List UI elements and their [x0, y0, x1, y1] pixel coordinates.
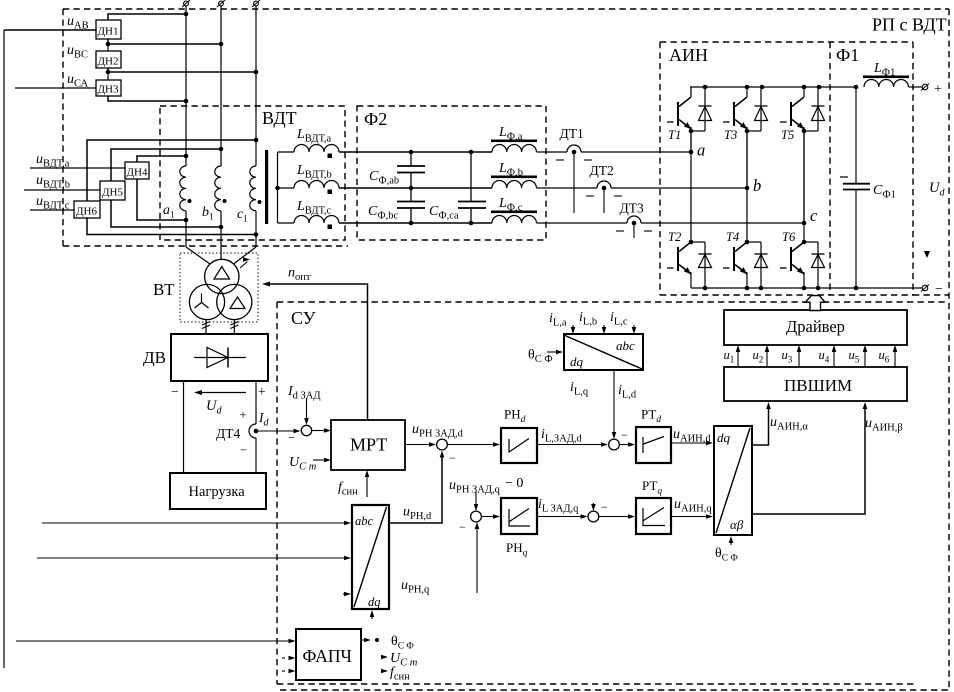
wire ФАПЧ input 2 [282, 657, 285, 659]
wire phase a out [339, 151, 492, 153]
polarity dot b1 [223, 199, 227, 203]
regulator РН_q [501, 498, 537, 534]
svg-text:Драйвер: Драйвер [786, 317, 845, 336]
wire ДН4 input [30, 167, 125, 169]
wire phase leg b [746, 131, 748, 242]
boundary РП с ВДТ bottom-left [63, 245, 348, 247]
arrow U_Cm output [381, 655, 388, 660]
junction top bus x=705 [703, 85, 708, 90]
junction bottom bus x=804 [802, 286, 807, 291]
diode of Т2 [691, 241, 705, 243]
boundary РП bottom-right segment [913, 294, 949, 296]
svg-text:ВДТ: ВДТ [262, 108, 297, 128]
box Ф1 dashed right [912, 42, 914, 295]
wire u1 ПВШИМ to Драйвер [737, 350, 739, 367]
junction top bus x=747 [745, 85, 750, 90]
diode of Т3 [760, 87, 762, 131]
svg-text:+: + [240, 408, 247, 422]
node c [802, 221, 807, 226]
node a [689, 150, 694, 155]
summing node МРТ input [301, 425, 311, 435]
wire ДН1 bottom to phase B [108, 39, 221, 44]
svg-text:+: + [934, 82, 942, 97]
arrow U_d load [196, 392, 246, 394]
svg-text:ДН6: ДН6 [76, 206, 97, 218]
svg-text:−: − [935, 282, 943, 297]
block abc-dq currents [564, 334, 643, 370]
box АИН-Ф1 divider dashed [829, 42, 831, 295]
polarity dot a1 [188, 199, 192, 203]
wire ДН6 input [30, 209, 74, 211]
node B-ДН1/ДН2 [219, 42, 224, 47]
wire q1 to РН_q [481, 516, 495, 518]
svg-text:ДТ4: ДТ4 [216, 426, 240, 441]
svg-text:ДТ3: ДТ3 [620, 201, 644, 216]
wire ДН4 top tap [137, 156, 186, 162]
wire n_опт from МРТ to ВТ [267, 284, 368, 420]
transistor Т5 [803, 87, 805, 97]
svg-text:Т1: Т1 [668, 128, 681, 142]
polarity dot L_ВДТа [328, 154, 333, 159]
boundary РП с ВДТ left [62, 9, 64, 246]
ВТ delta bottom-right [230, 297, 245, 309]
wire ВТ to ДВ right stub [233, 320, 235, 335]
inductor L_Фc core bar [491, 211, 537, 214]
block Драйвер [724, 310, 907, 345]
svg-text:ФАПЧ: ФАПЧ [303, 646, 352, 666]
transistor Т2 [689, 240, 694, 245]
svg-text:Нагрузка: Нагрузка [189, 484, 246, 500]
junction top bus x=804 [802, 85, 807, 90]
node C-ДН6 top [254, 138, 259, 143]
boundary РП с ВДТ top [63, 8, 949, 10]
transistor Т4 [745, 240, 750, 245]
svg-text:−: − [449, 451, 456, 465]
wire theta_СФ output [361, 639, 366, 641]
sensor ДТ1 [567, 145, 581, 152]
wire ДН5 top tap [111, 149, 221, 181]
block Нагрузка [170, 473, 266, 509]
winding b1 [215, 166, 221, 211]
wire phase C vertical [255, 6, 257, 166]
wire u3 ПВШИМ to Драйвер [798, 350, 800, 367]
box ВДТ dashed [160, 106, 345, 240]
svg-text:Т6: Т6 [782, 230, 796, 244]
wire ДН3 top junction [107, 72, 109, 80]
inductor L_Фа [492, 145, 536, 152]
svg-text:− 0: − 0 [505, 476, 523, 491]
svg-text:РП с ВДТ: РП с ВДТ [872, 15, 947, 35]
regulator РН_d [501, 428, 537, 463]
inductor L_Фb core bar [491, 176, 537, 179]
polarity dot L_ВДТb [328, 190, 333, 195]
wire I_d ЗАД down [306, 398, 308, 419]
diode of Т6 [804, 241, 818, 243]
capacitor C_Фbc [410, 188, 412, 201]
box АИН dashed [660, 41, 913, 43]
wire ДН5 input [24, 189, 100, 191]
winding c1 [250, 166, 256, 211]
block МРТ [331, 420, 405, 470]
wire ДН4 bottom tap [137, 179, 186, 220]
wire ДТ3 tap [633, 223, 635, 238]
sensor ДН6 [74, 201, 100, 218]
wire ДН2 bottom to phase C [108, 68, 256, 72]
svg-text:Т3: Т3 [724, 128, 737, 142]
wire РТ_q output [671, 516, 708, 518]
wire u_РН,q feedback up [476, 527, 478, 593]
inductor L_Фа core bar [491, 140, 537, 143]
polarity dot c1 [258, 200, 262, 204]
node B-ДН5 top [219, 147, 224, 152]
junction top bus x=856 [854, 85, 859, 90]
box СУ dashed top [277, 301, 949, 303]
wire q2 to РТ_q [599, 516, 630, 518]
wire phase B below winding [220, 211, 222, 260]
wire theta to abc-dq [547, 351, 558, 353]
wire ДН1 output left [4, 29, 96, 31]
wire DC bus top [690, 86, 856, 88]
wire phase c to node c [641, 222, 804, 224]
block dq-αβ [714, 426, 752, 535]
wire phase A vertical [185, 6, 187, 166]
box ВТ dotted [180, 253, 258, 322]
wire ДТ1 tap [573, 152, 575, 213]
svg-text:a: a [697, 141, 705, 160]
ВТ circle bottom-right [217, 284, 252, 319]
svg-text:ВТ: ВТ [153, 280, 175, 299]
wire d1 to РН_d [447, 444, 495, 446]
wire ДН3 bottom to phase A [108, 96, 186, 101]
wire u_ВДТ input 2 [37, 557, 346, 559]
wire to plus terminal [909, 86, 923, 88]
capacitor C_Ф1 [855, 87, 857, 183]
regulator РТ_q [636, 498, 671, 534]
svg-text:dq: dq [570, 354, 584, 369]
junction top bus x=762 [760, 85, 765, 90]
wire ДВ to Нагрузка left [183, 381, 185, 473]
wire ДТ4 tap to МРТ summing [256, 430, 296, 432]
wire u6 ПВШИМ to Драйвер [894, 350, 896, 367]
wire phase C below winding [255, 211, 257, 247]
transistor Т1 [690, 87, 692, 97]
wire phase c to ДТ3 [537, 222, 628, 224]
wire i_L,b arrow [603, 325, 605, 329]
svg-text:ДН2: ДН2 [98, 56, 119, 68]
wire phase leg c [803, 131, 805, 242]
wire phase a to node a [581, 151, 691, 153]
wire phase b to ДТ2 [537, 187, 598, 189]
wire ДН3 output left [15, 87, 96, 89]
wire u_AB down left edge [3, 30, 5, 668]
diode of Т5 [817, 87, 819, 131]
summing node q2 [588, 511, 599, 522]
junction bottom bus x=747 [745, 286, 750, 291]
svg-text:Ф2: Ф2 [364, 109, 387, 129]
block ПВШИМ [724, 367, 907, 401]
inductor L_Ф1 [864, 80, 908, 88]
svg-text:abc: abc [355, 514, 374, 528]
svg-text:αβ: αβ [730, 517, 744, 532]
svg-text:ДН1: ДН1 [98, 26, 119, 38]
svg-text:Т5: Т5 [781, 128, 794, 142]
wire phase C to ВТ [234, 247, 257, 264]
sensor ДН3 [96, 80, 121, 96]
inductor L_ВДТа [278, 151, 295, 153]
wire i_Lq into q2 [592, 503, 594, 506]
svg-text:−: − [459, 520, 466, 534]
svg-text:−: − [171, 384, 179, 399]
wire phase A below winding [185, 211, 187, 247]
svg-text:c: c [810, 206, 818, 225]
wire u_РН,d feedback up [389, 455, 442, 523]
wire d2 to РТ_d [619, 444, 630, 446]
ВТ circle bottom-left [189, 284, 224, 319]
arrow f_син output [381, 669, 388, 674]
node secondary common [275, 186, 280, 191]
wire ФАПЧ input 3 [282, 670, 285, 672]
junction bottom bus x=856 [854, 286, 859, 291]
sensor ДТ2 [597, 181, 611, 188]
summing node q1 [471, 511, 482, 522]
node C-ДН2/ДН3 [254, 70, 259, 75]
node A-ДН1 [184, 12, 189, 17]
wire i_L,a arrow [572, 325, 574, 329]
winding a1 [180, 166, 186, 211]
wire phase a to ДТ1 [537, 151, 568, 153]
svg-text:СУ: СУ [291, 308, 316, 328]
wire u_АИН,α to ПВШИМ [752, 408, 769, 445]
svg-text:+: + [258, 384, 266, 399]
terminal DC plus [922, 84, 928, 90]
sensor ДН2 [96, 51, 121, 68]
box Ф2 dashed [357, 106, 546, 240]
ВТ circle top [205, 259, 239, 293]
wire ДН6 top tap [87, 140, 256, 201]
svg-text:−: − [288, 431, 295, 445]
wire ДТ4 below [255, 438, 257, 473]
svg-text:ДТ2: ДТ2 [590, 163, 614, 178]
wire u_АИН,β to ПВШИМ [752, 408, 865, 514]
svg-text:dq: dq [717, 430, 731, 445]
polarity dot L_ВДТc [328, 225, 333, 230]
diode of Т4 [747, 241, 761, 243]
box СУ dashed left [276, 302, 278, 684]
svg-text:Т2: Т2 [668, 230, 681, 244]
ВТ star symbol [195, 294, 209, 309]
svg-text:ДН3: ДН3 [98, 84, 119, 96]
capacitor C_Фab [410, 152, 412, 166]
wire theta_СФ to dq-αβ [730, 541, 732, 545]
transistor Т3 [746, 87, 748, 97]
wire РТ_d output [671, 442, 708, 444]
wire ДН1 top to phase A [108, 14, 186, 20]
boundary РП с ВДТ right [948, 9, 950, 690]
wire secondary common [277, 152, 279, 223]
regulator РТ_d [636, 427, 671, 463]
diode of Т1 [704, 87, 706, 131]
transistor Т6 [802, 240, 807, 245]
wire u_ВДТ input 1 [42, 522, 346, 524]
sensor ДН5 [100, 181, 125, 200]
ВТ adjustment arrow [240, 262, 248, 269]
wire phase b out [339, 187, 492, 189]
inductor L_Фb [492, 181, 536, 189]
wire МРТ output [405, 444, 431, 446]
terminal DC minus [922, 285, 928, 291]
arrow Драйвер to АИН [806, 296, 826, 311]
wire ДН2 top junction [107, 44, 109, 51]
wire phase A to ВТ [186, 247, 210, 264]
summing node d2 [609, 439, 620, 450]
wire phase b to node b [611, 187, 747, 189]
svg-text:ПВШИМ: ПВШИМ [784, 376, 852, 395]
inductor L_Ф1 core bar [863, 76, 909, 79]
wire u2 ПВШИМ to Драйвер [766, 350, 768, 367]
wire f_син to МРТ [366, 475, 368, 497]
node A-ДН3 [184, 99, 189, 104]
wire input 3 arrow [343, 593, 346, 595]
block ДВ [171, 334, 268, 381]
svg-text:abc: abc [616, 338, 635, 353]
wire ДТ2 tap [603, 188, 605, 213]
node C-ДН6 bot [254, 232, 259, 237]
wire i_L,d down [613, 370, 615, 433]
terminal phase A [184, 1, 189, 6]
block ФАПЧ [296, 629, 361, 680]
node b [745, 186, 750, 191]
svg-text:ДН5: ДН5 [102, 187, 123, 199]
arrow U_d direction [924, 251, 930, 258]
svg-text:МРТ: МРТ [350, 435, 387, 455]
inductor L_Фc [492, 216, 536, 223]
wire U_Cm to МРТ [313, 459, 326, 461]
svg-text:ДВ: ДВ [143, 348, 166, 367]
svg-text:−: − [621, 428, 628, 442]
summing node d1 [437, 439, 448, 450]
ВТ delta top [214, 267, 230, 280]
sensor ДН1 [96, 20, 121, 39]
sensor ДТ3 [627, 216, 641, 223]
sensor ДН4 [125, 162, 149, 179]
svg-text:ДН4: ДН4 [127, 167, 148, 179]
node B-ДН5 bot [219, 225, 224, 230]
svg-text:ДТ1: ДТ1 [560, 126, 584, 141]
wire theta bottom arrow [371, 615, 373, 619]
junction top bus x=819 [817, 85, 822, 90]
svg-text:Ф1: Ф1 [836, 45, 859, 65]
wire phase c out [339, 222, 492, 224]
terminal phase C [254, 1, 259, 6]
diode in ДВ [194, 357, 246, 359]
wire ДВ to Нагрузка right [255, 381, 257, 424]
wire u_АВ to ФАПЧ [16, 640, 290, 642]
svg-text:АИН: АИН [669, 45, 708, 65]
svg-text:−: − [601, 500, 608, 514]
wire u5 ПВШИМ to Драйвер [864, 350, 866, 367]
wire DC bus bottom [691, 287, 922, 289]
wire u4 ПВШИМ to Драйвер [833, 350, 835, 367]
inductor L_ВДТb [278, 187, 295, 189]
wire phase B vertical [220, 6, 222, 166]
svg-text:b: b [753, 176, 761, 195]
wire РН_q to q2 [537, 516, 582, 518]
svg-text:dq: dq [368, 595, 381, 609]
wire ДН5 bottom tap [111, 200, 221, 227]
node A-ДН4 bot [184, 218, 189, 223]
box СУ dashed bottom [277, 683, 917, 685]
wire i_L,c arrow [633, 325, 635, 329]
svg-text:Т4: Т4 [726, 230, 739, 244]
block abc-dq voltages [352, 505, 389, 609]
wire summing to МРТ [312, 430, 326, 432]
boundary bottom outer [280, 689, 949, 691]
wire ДН6 bottom tap [87, 218, 256, 235]
capacitor C_Фca [470, 152, 472, 201]
node A-ДН4 top [184, 154, 189, 159]
terminal phase B [219, 1, 224, 6]
sensor ДТ4 [249, 424, 256, 438]
transformer core bar [265, 150, 268, 224]
wire ВТ to ДВ left stub [205, 320, 207, 335]
svg-text:−: − [240, 443, 247, 457]
inductor L_ВДТc [278, 222, 295, 224]
wire РН_d to d2 [537, 444, 603, 446]
wire phase leg a [690, 131, 692, 242]
wire u_РН ЗАД,q down [475, 492, 477, 505]
